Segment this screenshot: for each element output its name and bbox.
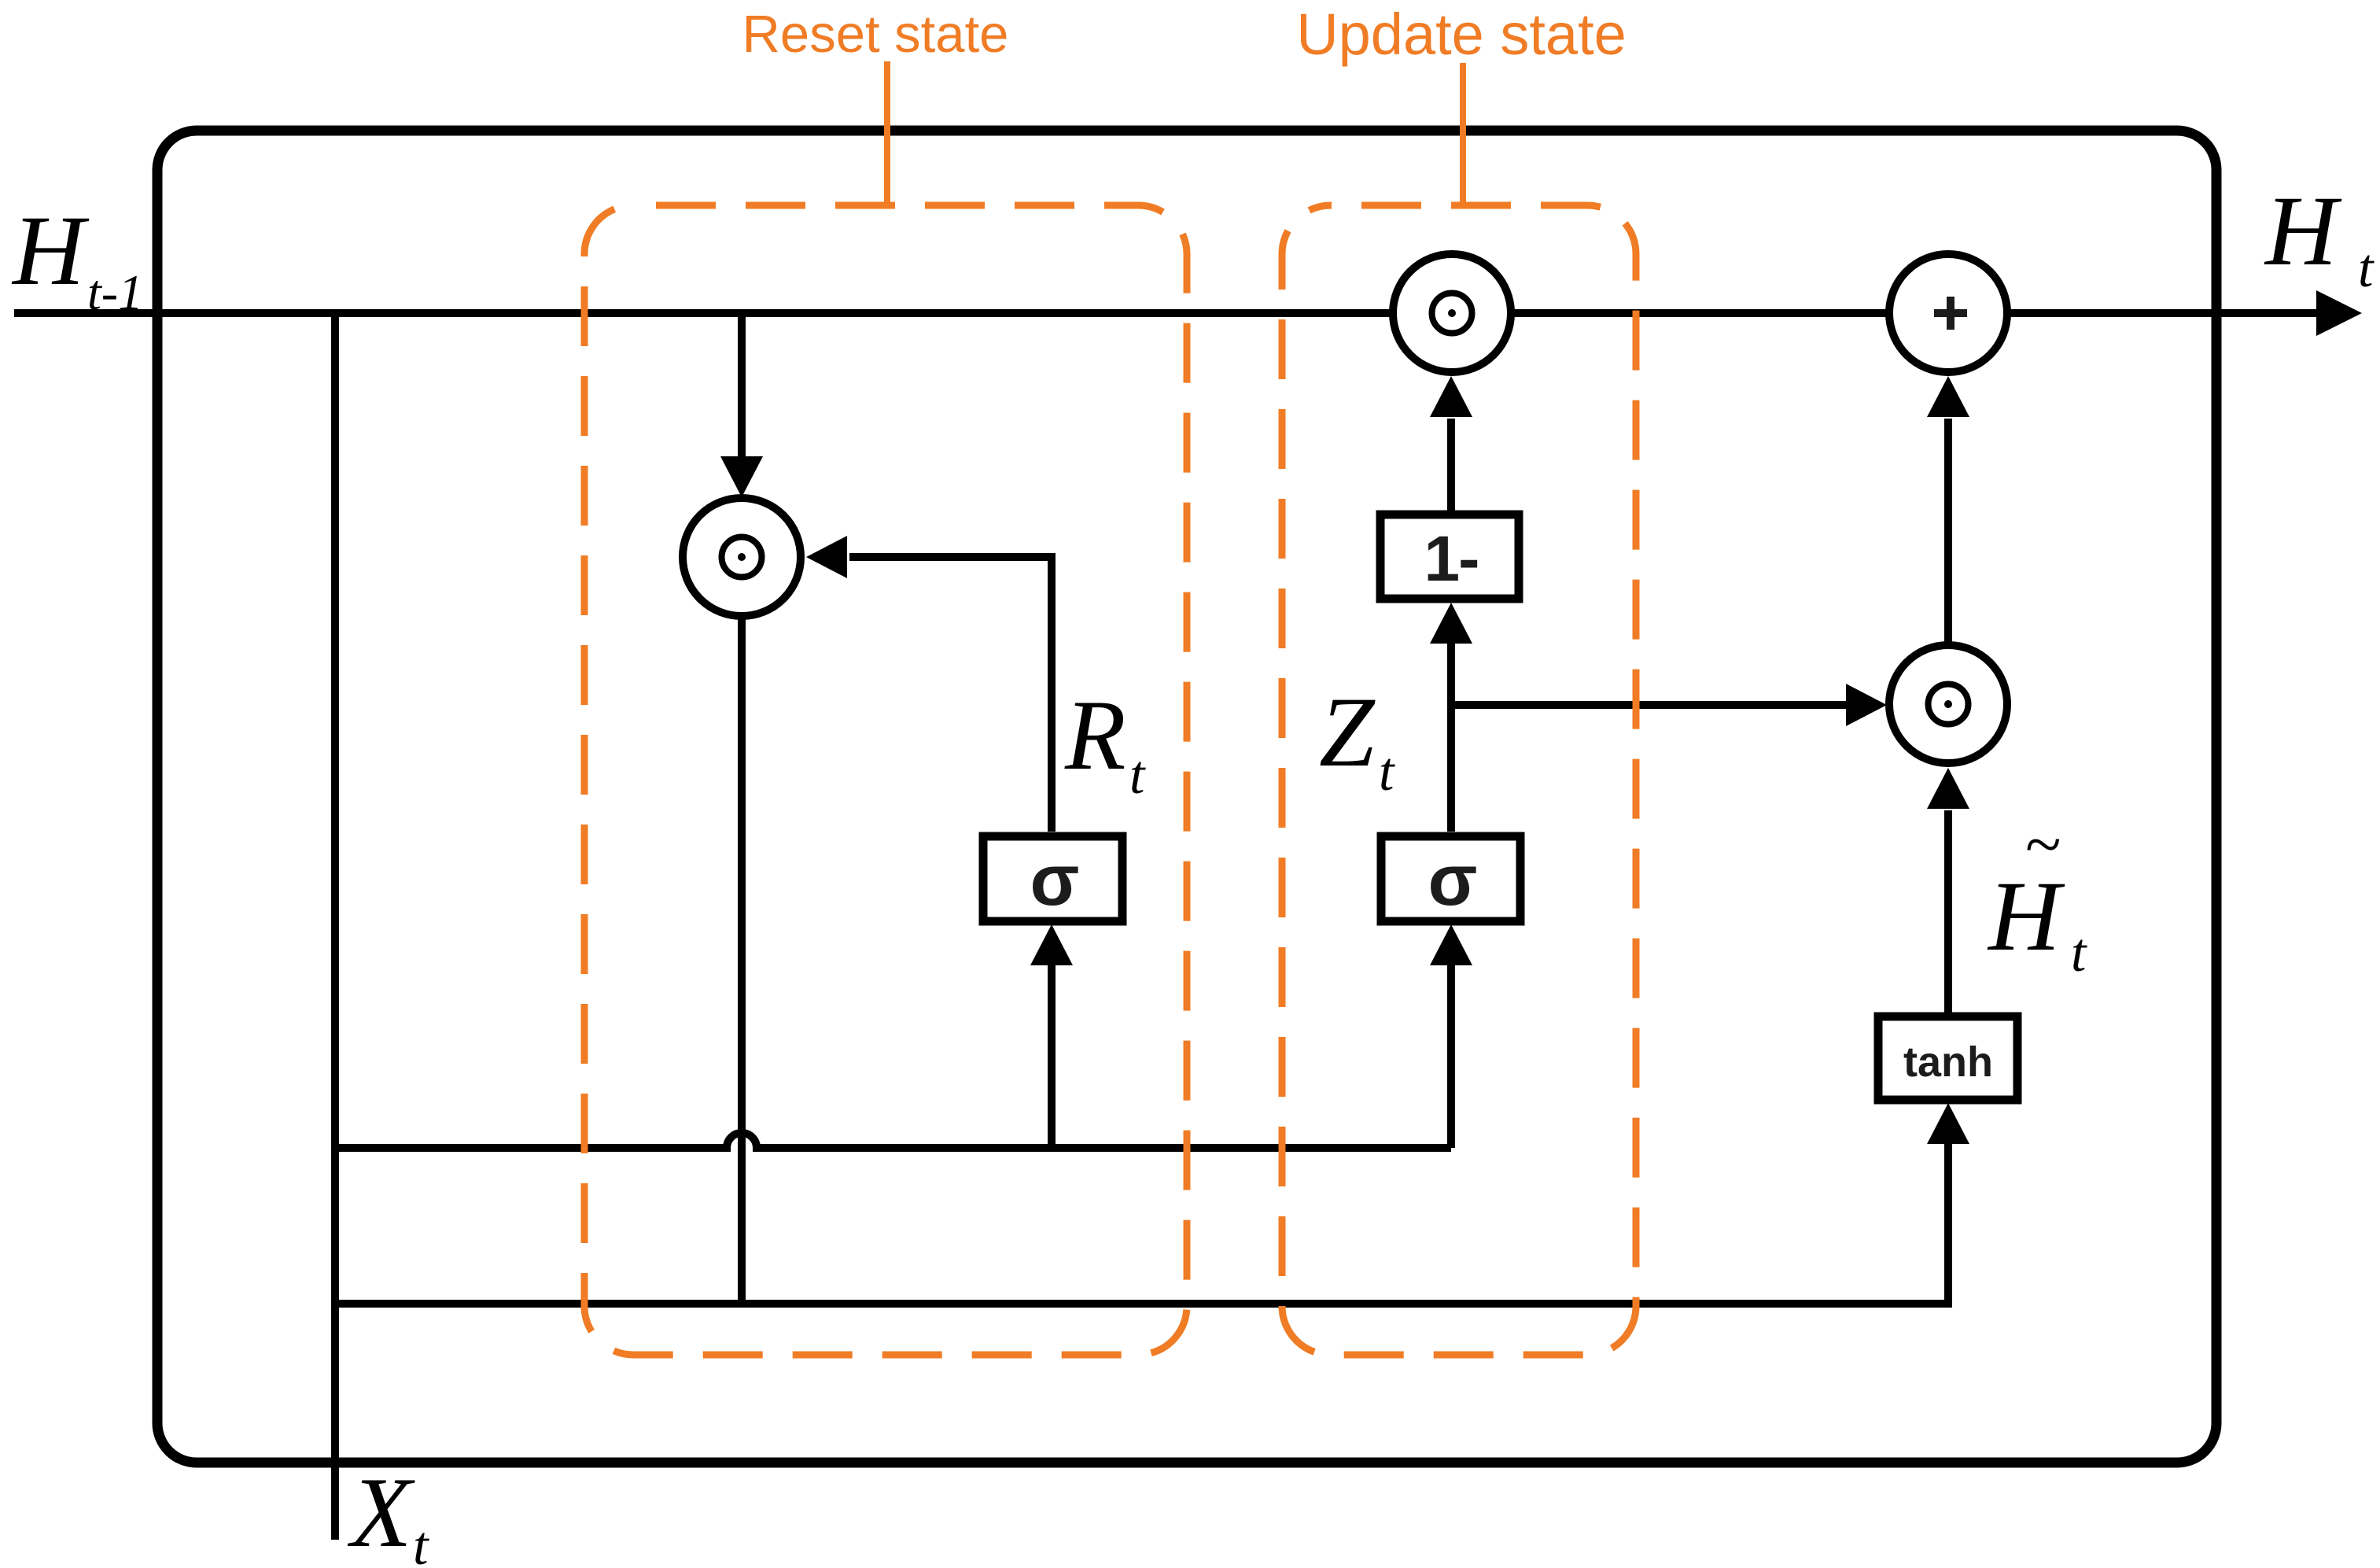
svg-text:σ: σ [1428, 840, 1478, 921]
arrowhead into adder [1927, 376, 1969, 417]
svg-text:σ: σ [1030, 840, 1080, 921]
wire candidate product up to adder [1944, 419, 1952, 643]
elementwise product circle (reset) [683, 498, 801, 616]
elementwise product circle (candidate) [1889, 645, 2007, 763]
arrowhead into reset sigma [1030, 924, 1073, 965]
leader line Reset state [884, 61, 890, 205]
wire R_t from sigma to reset product [849, 557, 1052, 832]
adder circle [1889, 254, 2007, 372]
wire X_t vertical input [331, 313, 339, 1540]
wire X line 2 to tanh [335, 1140, 1948, 1304]
sigma box (reset gate) [983, 836, 1122, 921]
wire H branch down to reset product [738, 313, 746, 458]
leader line Update state [1460, 63, 1466, 205]
wire Z_t branch to candidate product [1451, 701, 1850, 709]
svg-text:t: t [2071, 923, 2087, 983]
arrowhead H_t output [2316, 290, 2362, 336]
svg-text:tanh: tanh [1903, 1039, 1993, 1086]
elementwise product circle (update on H line) [1393, 254, 1511, 372]
wire H_{t-1} -> H_t main horizontal [14, 309, 2322, 317]
wire reset product down to X line 2 [738, 497, 746, 1304]
wire tanh up to candidate product [1944, 810, 1952, 1013]
svg-text:~: ~ [2024, 808, 2060, 881]
update-gate dashed group box [1282, 205, 1636, 1355]
svg-text:H: H [2264, 176, 2342, 286]
wire X line 1 with hop over reset wire [335, 1133, 1451, 1148]
svg-text:Reset state: Reset state [742, 5, 1009, 64]
arrowhead into 1- box [1430, 603, 1472, 644]
arrowhead R_t into reset product [806, 536, 847, 578]
wire Z_t from sigma up to 1- box [1447, 642, 1455, 832]
svg-text:t: t [1379, 742, 1395, 802]
arrowhead into update product [1430, 376, 1472, 417]
arrowhead into tanh box [1927, 1103, 1969, 1144]
reset-gate dashed group box [584, 205, 1187, 1355]
svg-text:t: t [1129, 745, 1146, 806]
svg-text:t: t [2358, 238, 2374, 299]
wire up into reset sigma [1048, 964, 1056, 1148]
svg-text:t: t [413, 1516, 429, 1568]
tanh box [1878, 1016, 2017, 1100]
arrowhead Z_t into candidate product [1846, 684, 1887, 726]
wire 1- box up to update product [1447, 419, 1455, 511]
svg-text:R: R [1064, 681, 1126, 791]
svg-text:X: X [347, 1458, 415, 1568]
GRU cell outer box [157, 131, 2216, 1463]
wire up into update sigma [1447, 964, 1455, 1148]
svg-text:Update state: Update state [1296, 2, 1627, 67]
svg-text:H: H [11, 196, 90, 306]
1- box [1380, 515, 1519, 599]
arrowhead into reset product from top [720, 456, 763, 497]
arrowhead into candidate product from below [1927, 768, 1969, 809]
svg-text:t-1: t-1 [87, 264, 143, 320]
svg-text:1-: 1- [1424, 523, 1479, 595]
arrowhead into update sigma [1430, 924, 1472, 965]
sigma box (update gate) [1381, 836, 1520, 921]
svg-text:Z: Z [1319, 677, 1376, 788]
